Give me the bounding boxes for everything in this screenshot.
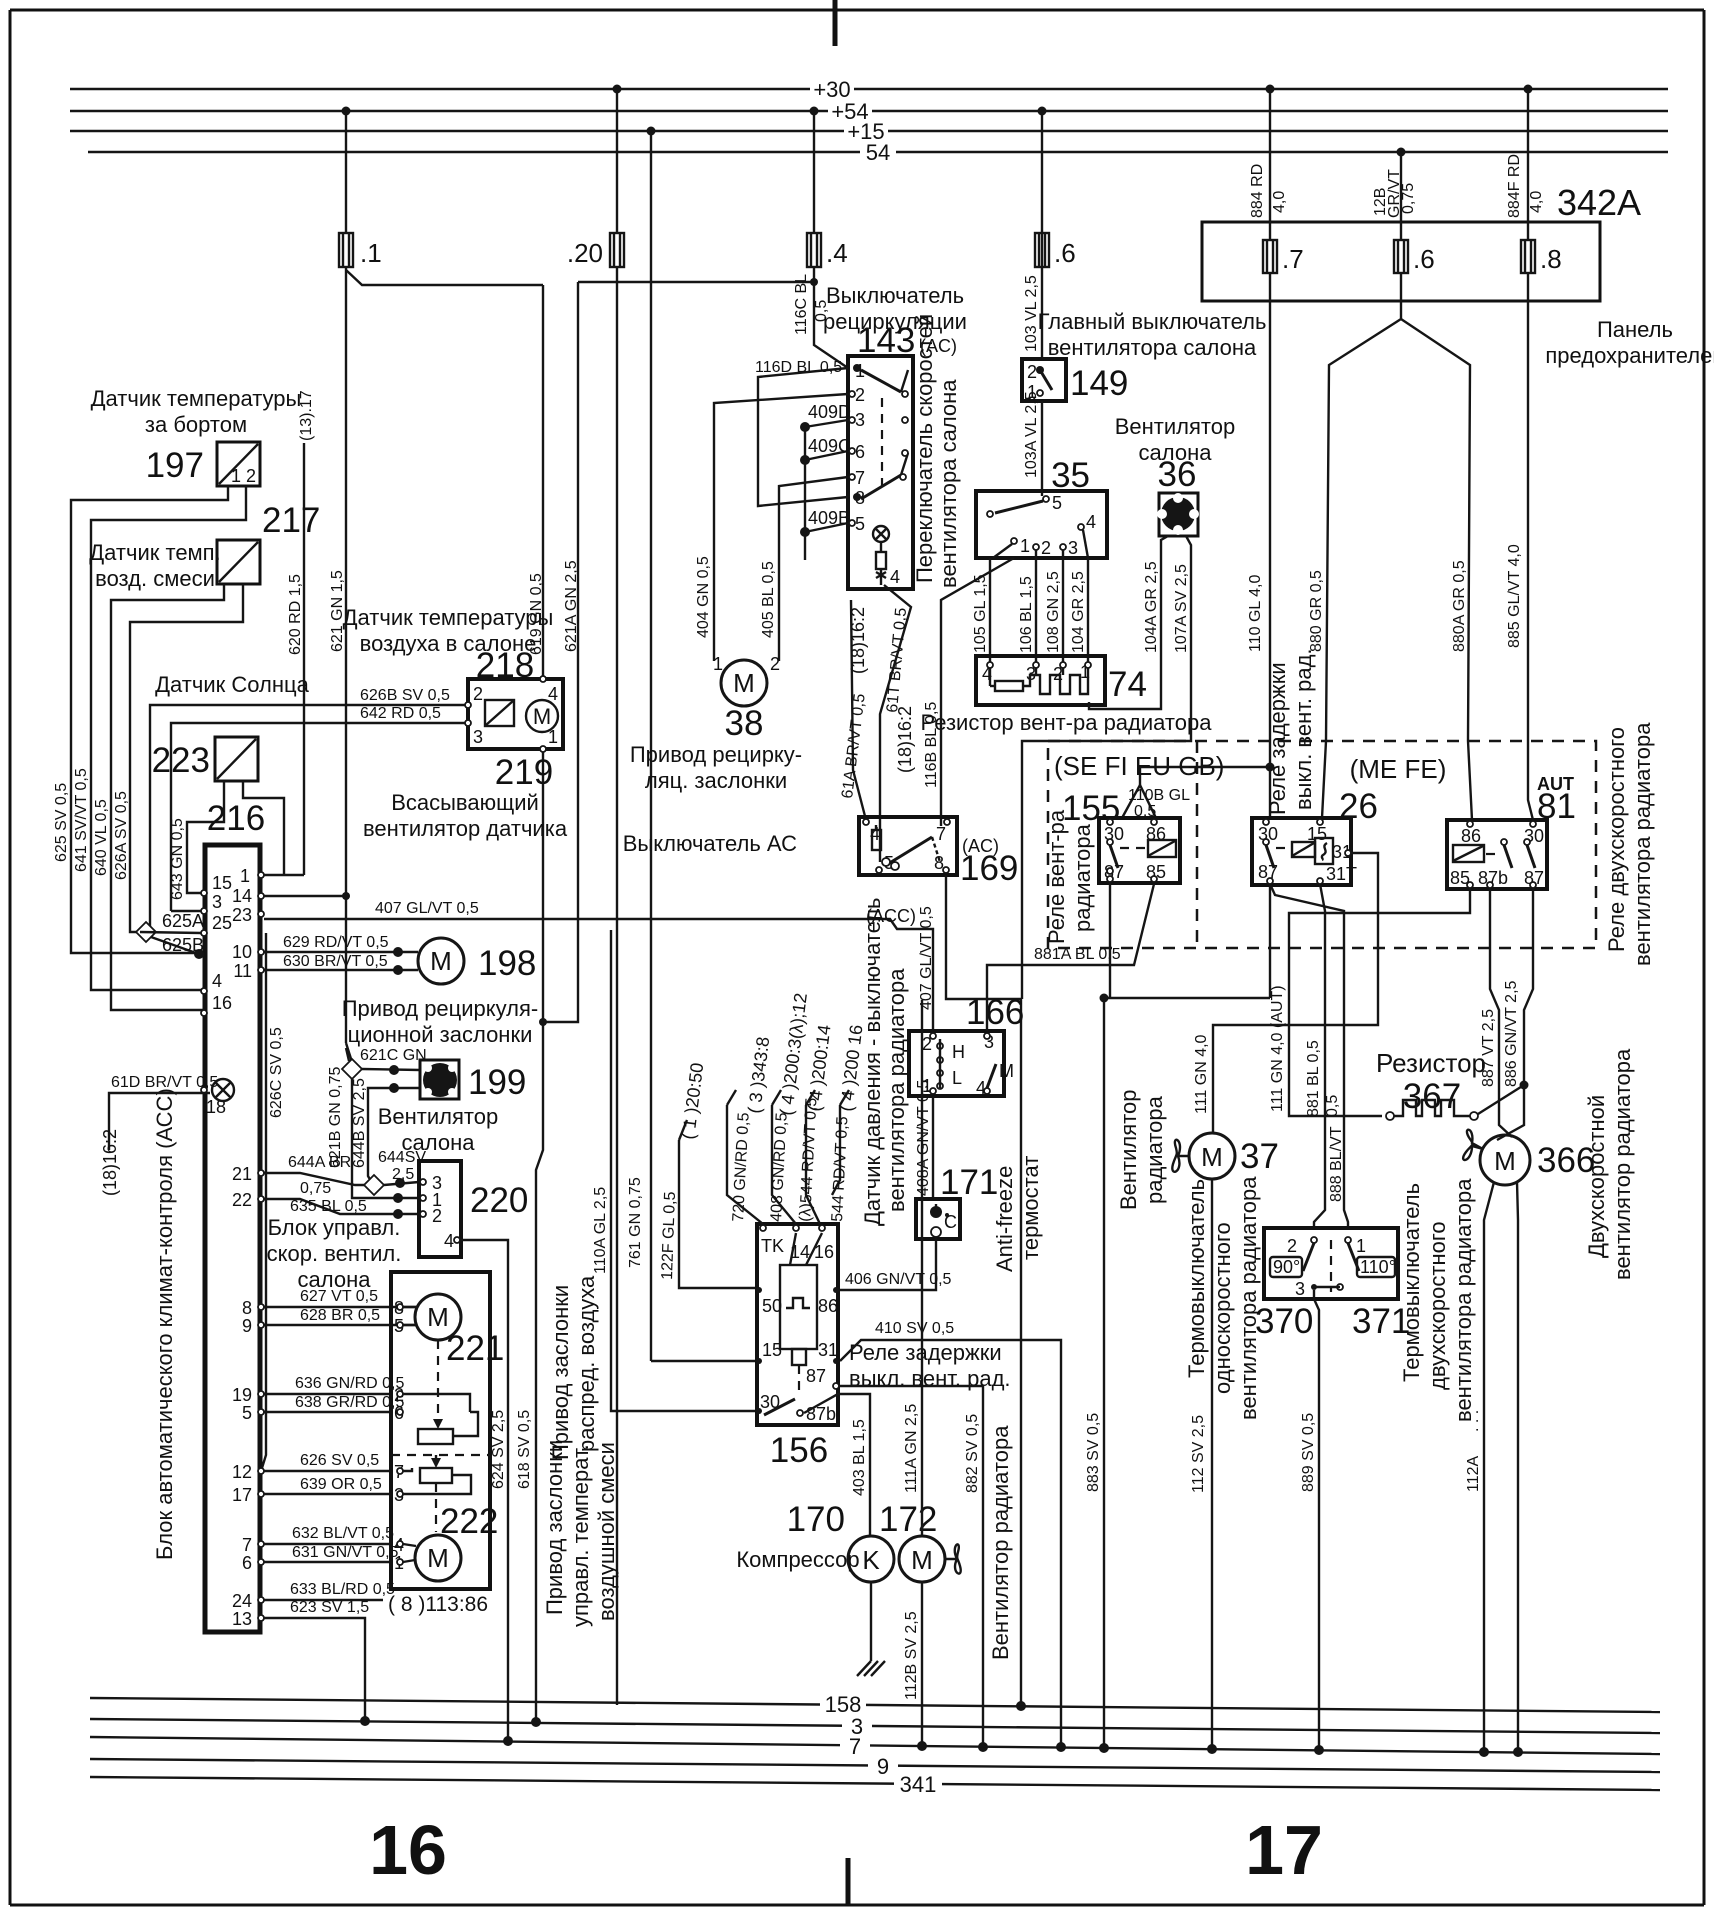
sensor 197 ambient temp xyxy=(91,386,302,486)
svg-text:170: 170 xyxy=(787,1500,845,1539)
dashed option box xyxy=(1048,741,1596,948)
ECU 216 block xyxy=(152,799,265,1632)
resistor 367 xyxy=(1376,1048,1529,1120)
label Panel predohraniteley xyxy=(1545,317,1714,368)
wire 403 BL from 156.87b xyxy=(804,1394,870,1537)
svg-text:111A GN 2,5: 111A GN 2,5 xyxy=(903,1404,920,1493)
svg-text:626A SV 0,5: 626A SV 0,5 xyxy=(113,791,130,880)
svg-text:(18)16:2: (18)16:2 xyxy=(895,706,915,773)
svg-text:выкл. вент. рад.: выкл. вент. рад. xyxy=(849,1366,1011,1391)
wire 641 SV/VT from 197.2 xyxy=(73,486,246,990)
svg-text:M: M xyxy=(533,704,551,729)
svg-text:644B SV 2,5: 644B SV 2,5 xyxy=(351,1078,368,1168)
sensor 218/219 cabin temp + fan xyxy=(343,605,568,841)
svg-text:110B GL: 110B GL xyxy=(1128,787,1190,804)
wire 626 SV pin12 xyxy=(264,1452,391,1471)
svg-text:4: 4 xyxy=(212,971,222,991)
compressor 170 xyxy=(736,1500,894,1582)
svg-text:627 VT 0,5: 627 VT 0,5 xyxy=(300,1288,378,1305)
label privod zaslonki upravl xyxy=(542,1440,619,1627)
svg-text:54: 54 xyxy=(866,140,890,165)
svg-text:термостат: термостат xyxy=(1018,1156,1043,1260)
wire 619 GN xyxy=(346,270,545,1727)
svg-text:вентилятора салона: вентилятора салона xyxy=(1048,335,1257,360)
svg-text:620 RD 1,5: 620 RD 1,5 xyxy=(287,574,304,655)
wire pin14 to 621 xyxy=(264,895,346,897)
wire 116B BL 35.1 to 169.7 xyxy=(923,558,1014,826)
svg-text:633 BL/RD 0,5: 633 BL/RD 0,5 xyxy=(290,1581,395,1598)
delay relay 156 xyxy=(756,1224,1011,1470)
label privod zaslonki raspred xyxy=(548,1275,599,1460)
wire 169.8 down xyxy=(946,875,1026,1711)
svg-text:21: 21 xyxy=(232,1164,252,1184)
svg-text:11: 11 xyxy=(233,961,252,981)
svg-text:409C: 409C xyxy=(808,436,851,456)
wire 632 BL/VT pin7 xyxy=(264,1525,394,1544)
svg-text:M: M xyxy=(733,668,755,698)
label thermal switch two speed xyxy=(1399,1178,1476,1422)
motor 38 recirc flap xyxy=(630,654,802,793)
svg-text:74: 74 xyxy=(1108,665,1147,704)
wire 880 GR from fuse .6b xyxy=(1308,273,1401,818)
svg-text:радиатора: радиатора xyxy=(1070,823,1095,932)
wire 408A GN/VT xyxy=(915,1080,933,1199)
svg-text:Термовыключатель: Термовыключатель xyxy=(1184,1179,1209,1378)
svg-text:625A: 625A xyxy=(162,911,204,931)
wire 630 BR/VT xyxy=(264,953,418,975)
svg-text:86: 86 xyxy=(818,1296,838,1316)
wire 636 GN/RD pin19 xyxy=(264,1375,404,1394)
svg-text:Вентилятор: Вентилятор xyxy=(1115,414,1235,439)
svg-text:2: 2 xyxy=(770,654,780,674)
wires below 366 xyxy=(1465,1182,1523,1757)
wire 408 GN/RD ref stub xyxy=(768,992,811,1224)
wire 633 BL/RD pin24 ref (8)113:86 xyxy=(264,1581,488,1616)
wire 110 GL from fuse .7 xyxy=(1122,273,1275,820)
svg-text:Реле задержки: Реле задержки xyxy=(849,1340,1002,1365)
svg-text:884F RD: 884F RD xyxy=(1506,154,1523,218)
svg-text:116C BL: 116C BL xyxy=(793,274,810,335)
wire 627 VT pin8 xyxy=(264,1288,417,1307)
svg-text:Вентилятор: Вентилятор xyxy=(1116,1090,1141,1210)
wire 110A GL xyxy=(592,930,755,1411)
svg-text:639 OR 0,5: 639 OR 0,5 xyxy=(300,1476,382,1493)
svg-text:409D: 409D xyxy=(808,402,851,422)
svg-text:626B SV 0,5: 626B SV 0,5 xyxy=(360,687,450,704)
svg-text:1: 1 xyxy=(1356,1236,1366,1256)
wire 626C SV xyxy=(262,933,285,1468)
svg-text:M: M xyxy=(911,1545,933,1575)
svg-text:197: 197 xyxy=(146,446,204,485)
svg-text:TK: TK xyxy=(761,1236,784,1256)
svg-text:Выключатель: Выключатель xyxy=(826,283,964,308)
svg-text:342A: 342A xyxy=(1557,182,1641,223)
svg-text:31: 31 xyxy=(818,1340,838,1360)
svg-text:Реле задержки: Реле задержки xyxy=(1265,662,1290,815)
wire 406 GN/VT xyxy=(840,1237,952,1290)
svg-text:17: 17 xyxy=(232,1485,252,1505)
svg-text:(18)16:2: (18)16:2 xyxy=(848,607,868,674)
svg-text:621A GN 2,5: 621A GN 2,5 xyxy=(563,560,580,652)
svg-text:7: 7 xyxy=(242,1535,252,1555)
wire 883 SV net below relays xyxy=(1099,882,1270,1753)
svg-text:ляц. заслонки: ляц. заслонки xyxy=(645,768,787,793)
fuse .4 xyxy=(807,233,848,268)
wire 628 BR pin9 xyxy=(264,1307,417,1325)
wire 410 SV from 156.31 xyxy=(840,1320,1066,1752)
ground below 170 xyxy=(857,1582,885,1676)
svg-text:Резистор: Резистор xyxy=(1376,1048,1486,1078)
svg-text:H: H xyxy=(952,1042,965,1062)
svg-text:22: 22 xyxy=(232,1190,252,1210)
svg-text:621B GN 0,75: 621B GN 0,75 xyxy=(327,1067,344,1169)
svg-text:15: 15 xyxy=(212,873,232,893)
wire 623 SV pin13 xyxy=(264,1599,370,1726)
wire 122F GL ref (1)20:50 xyxy=(659,1062,755,1288)
wire 106 BL xyxy=(1018,558,1036,665)
svg-text:.1: .1 xyxy=(360,238,382,268)
svg-text:888 BL/VT: 888 BL/VT xyxy=(1328,1126,1345,1202)
relay 26 delay relay xyxy=(1252,648,1378,885)
wire 639 OR pin17 xyxy=(264,1476,391,1494)
wire 621B GN xyxy=(327,1067,419,1204)
svg-text:скор. вентил.: скор. вентил. xyxy=(267,1241,402,1266)
svg-text:104 GR 2,5: 104 GR 2,5 xyxy=(1070,571,1087,653)
pressure switch 166 xyxy=(909,993,1024,1098)
ECU left pins xyxy=(201,873,232,1117)
svg-text:9: 9 xyxy=(242,1316,252,1336)
svg-text:13: 13 xyxy=(232,1609,252,1629)
svg-text:644A BR: 644A BR xyxy=(288,1154,351,1171)
wire pin1 to 620 xyxy=(264,874,304,876)
svg-text:3: 3 xyxy=(855,410,865,430)
main blower switch 149 xyxy=(1022,309,1266,403)
svg-text:Резистор вент-ра радиатора: Резистор вент-ра радиатора xyxy=(921,710,1213,735)
svg-text:2: 2 xyxy=(1041,538,1051,558)
svg-text:116B BL 0,5: 116B BL 0,5 xyxy=(923,702,940,788)
svg-text:L: L xyxy=(952,1068,962,1088)
svg-text:Привод заслонки: Привод заслонки xyxy=(542,1440,567,1615)
svg-text:ционной заслонки: ционной заслонки xyxy=(348,1022,533,1047)
wire 544 RD/VT ref stub b xyxy=(829,1024,867,1223)
wire 103 VL xyxy=(1023,107,1047,360)
wire 103A VL xyxy=(1023,391,1042,496)
svg-text:408A GN/VT 0,5: 408A GN/VT 0,5 xyxy=(915,1080,932,1196)
svg-text:635 BL 0,5: 635 BL 0,5 xyxy=(290,1198,367,1215)
svg-text:4,0: 4,0 xyxy=(1271,191,1288,213)
svg-text:370: 370 xyxy=(1255,1302,1313,1341)
svg-text:Термовыключатель: Термовыключатель xyxy=(1399,1183,1424,1382)
sun sensor label xyxy=(155,672,309,697)
svg-text:K: K xyxy=(862,1545,880,1575)
bus 3 xyxy=(90,1714,1660,1739)
wire 12B GR/VT xyxy=(1372,148,1417,241)
svg-text:вентилятора радиатора: вентилятора радиатора xyxy=(1630,722,1655,966)
svg-text:2: 2 xyxy=(432,1206,442,1226)
svg-text:2: 2 xyxy=(1027,362,1037,382)
svg-text:407 GL/VT 0,5: 407 GL/VT 0,5 xyxy=(375,900,479,917)
svg-text:171: 171 xyxy=(940,1163,998,1202)
svg-text:вентилятора радиатора: вентилятора радиатора xyxy=(884,968,909,1212)
svg-text:6: 6 xyxy=(242,1553,252,1573)
wire 882 SV from 156.87 xyxy=(840,1386,988,1752)
label ventilyator radiatora mid xyxy=(988,1425,1013,1660)
svg-text:341: 341 xyxy=(900,1772,937,1797)
svg-text:38: 38 xyxy=(725,704,764,743)
wire 631 GN/VT pin6 xyxy=(264,1544,399,1562)
svg-text:Привод рецирку-: Привод рецирку- xyxy=(630,742,802,767)
svg-text:( 8 )113:86: ( 8 )113:86 xyxy=(388,1593,488,1616)
label thermal switch single speed xyxy=(1184,1176,1261,1420)
svg-text:198: 198 xyxy=(478,944,536,983)
recirculation switch 143 xyxy=(823,283,967,589)
svg-text:1: 1 xyxy=(240,866,250,886)
wire 635 BL from pin22 xyxy=(264,1198,419,1219)
svg-text:221: 221 xyxy=(446,1329,504,1368)
fuse .6 xyxy=(1035,233,1076,268)
two-speed fan motor 366 xyxy=(1463,1048,1635,1280)
svg-text:4: 4 xyxy=(548,684,558,704)
svg-text:Датчик темп.: Датчик темп. xyxy=(89,540,220,565)
svg-text:105 GL 1,5: 105 GL 1,5 xyxy=(972,574,989,653)
svg-text:.7: .7 xyxy=(1282,244,1304,274)
wire 61D BR/VT with ref xyxy=(100,1074,234,1196)
svg-text:86: 86 xyxy=(1461,826,1481,846)
AC switch 169 xyxy=(623,817,1019,888)
svg-text:Компрессор: Компрессор xyxy=(736,1547,859,1572)
wire 405 BL 38.2 to 143.7 xyxy=(760,477,848,661)
svg-text:Датчик температуры: Датчик температуры xyxy=(343,605,554,630)
svg-text:3: 3 xyxy=(473,727,483,747)
svg-text:2: 2 xyxy=(473,684,483,704)
wire 112 SV from 37 xyxy=(1190,1179,1217,1754)
svg-text:405 BL 0,5: 405 BL 0,5 xyxy=(760,561,777,638)
wire 626B SV to 218 xyxy=(150,687,468,932)
wire 884 RD xyxy=(1249,85,1288,241)
motor 221 air distribution xyxy=(391,1294,504,1455)
svg-text:112A: 112A xyxy=(1465,1455,1482,1492)
wire 640 VL from 217 xyxy=(93,584,224,1010)
wire 720 GN/RD ref stub xyxy=(727,1036,773,1224)
svg-text:Привод рециркуля-: Привод рециркуля- xyxy=(342,996,539,1021)
svg-text:2,5: 2,5 xyxy=(392,1166,414,1183)
wire 116C BL xyxy=(793,107,848,369)
svg-text:M: M xyxy=(1494,1146,1516,1176)
wire +15 drop 761 GN xyxy=(627,127,757,1362)
wire 111A GN to 172 xyxy=(903,1000,922,1537)
wire 620 RD ref (13).17 xyxy=(287,390,315,875)
svg-text:625B: 625B xyxy=(162,935,204,955)
label pressure switch xyxy=(860,897,909,1226)
svg-text:7: 7 xyxy=(936,824,946,844)
svg-text:Панель: Панель xyxy=(1597,317,1673,342)
svg-text:.6: .6 xyxy=(1054,238,1076,268)
svg-text:90°: 90° xyxy=(1273,1257,1300,1277)
svg-text:двухскоростного: двухскоростного xyxy=(1425,1221,1450,1390)
svg-text:Вентилятор радиатора: Вентилятор радиатора xyxy=(988,1425,1013,1660)
svg-text:M: M xyxy=(427,1302,449,1332)
svg-text:881A BL 0,5: 881A BL 0,5 xyxy=(1034,946,1121,963)
svg-text:2: 2 xyxy=(1287,1236,1297,1256)
svg-text:4: 4 xyxy=(444,1231,454,1251)
wire 618 SV label xyxy=(516,1410,533,1489)
radiator fan motor 37 xyxy=(1116,1090,1279,1210)
actuator unit 221/222 xyxy=(391,1272,490,1589)
svg-text:Выключатель АС: Выключатель АС xyxy=(623,831,797,856)
svg-text:885 GL/VT 4,0: 885 GL/VT 4,0 xyxy=(1506,544,1523,648)
svg-text:3: 3 xyxy=(212,892,222,912)
svg-text:31T: 31T xyxy=(1326,864,1357,884)
svg-text:406 GN/VT 0,5: 406 GN/VT 0,5 xyxy=(845,1271,952,1288)
wire 104A GR xyxy=(1089,536,1168,709)
svg-text:111 GN 4,0: 111 GN 4,0 xyxy=(1193,1034,1210,1114)
svg-text:5: 5 xyxy=(242,1403,252,1423)
svg-text:199: 199 xyxy=(468,1063,526,1102)
svg-text:возд. смеси: возд. смеси xyxy=(95,566,215,591)
svg-text:217: 217 xyxy=(262,501,320,540)
svg-text:640 VL 0,5: 640 VL 0,5 xyxy=(93,799,110,876)
svg-text:621C GN: 621C GN xyxy=(360,1047,427,1064)
svg-text:1 2: 1 2 xyxy=(231,466,256,486)
svg-text:110 GL 4,0: 110 GL 4,0 xyxy=(1247,575,1264,652)
relay 81 two-speed fan relay xyxy=(1447,722,1655,966)
svg-text:7: 7 xyxy=(849,1734,861,1759)
svg-text:881 BL 0,5: 881 BL 0,5 xyxy=(1305,1040,1322,1117)
wire 880A GR xyxy=(1401,319,1472,820)
svg-text:219: 219 xyxy=(495,753,553,792)
svg-text:вентилятора салона: вентилятора салона xyxy=(936,379,961,588)
wire 61T ref stub xyxy=(880,585,915,862)
page number 16 xyxy=(369,1811,447,1889)
bus 341 xyxy=(90,1772,1660,1797)
wire 404 GN 143.2 to 38.1 xyxy=(695,394,848,661)
svg-text:.6: .6 xyxy=(1413,244,1435,274)
svg-text:24: 24 xyxy=(232,1591,252,1611)
blower speed switch 35 xyxy=(976,456,1107,558)
wire 887 VT 81.87b down xyxy=(1480,888,1512,1137)
svg-text:35: 35 xyxy=(1051,456,1090,495)
svg-text:4: 4 xyxy=(1086,512,1096,532)
svg-text:410 SV 0,5: 410 SV 0,5 xyxy=(875,1320,954,1337)
svg-text:25: 25 xyxy=(212,913,232,933)
svg-text:14: 14 xyxy=(232,886,252,906)
svg-text:624 SV 2,5: 624 SV 2,5 xyxy=(490,1410,507,1489)
svg-text:629 RD/VT 0,5: 629 RD/VT 0,5 xyxy=(283,934,389,951)
svg-text:Двухскоростной: Двухскоростной xyxy=(1584,1095,1609,1258)
svg-text:166: 166 xyxy=(966,993,1024,1032)
fuse .8 xyxy=(1521,240,1562,274)
svg-text:23: 23 xyxy=(232,905,252,925)
svg-text:26: 26 xyxy=(1339,787,1378,826)
page number 17 xyxy=(1245,1811,1323,1889)
svg-text:16: 16 xyxy=(212,993,232,1013)
relay 155 radiator fan relay xyxy=(1044,789,1180,944)
svg-text:107A SV 2,5: 107A SV 2,5 xyxy=(1173,564,1190,653)
svg-text:625 SV 0,5: 625 SV 0,5 xyxy=(53,783,70,862)
wire 889 SV from 370.3 xyxy=(1300,1290,1324,1755)
ECU right pins xyxy=(232,866,264,1629)
wire 107A SV xyxy=(1022,536,1191,999)
svg-text:9: 9 xyxy=(877,1754,889,1779)
svg-text:3: 3 xyxy=(1068,538,1078,558)
svg-text:641 SV/VT 0,5: 641 SV/VT 0,5 xyxy=(73,768,90,872)
svg-text:M: M xyxy=(1201,1142,1223,1172)
svg-text:5: 5 xyxy=(1052,493,1062,513)
svg-text:Переключатель скоростей: Переключатель скоростей xyxy=(912,314,937,583)
svg-text:Блок управл.: Блок управл. xyxy=(268,1215,401,1240)
svg-text:631 GN/VT 0,5: 631 GN/VT 0,5 xyxy=(292,1544,399,1561)
svg-text:вентилятора радиатора: вентилятора радиатора xyxy=(1451,1178,1476,1422)
wire 644A BR from pin21 xyxy=(264,1149,426,1197)
svg-text:623 SV 1,5: 623 SV 1,5 xyxy=(290,1599,369,1616)
svg-text:10: 10 xyxy=(232,942,252,962)
svg-text:1: 1 xyxy=(1020,536,1030,556)
wire 105 GL xyxy=(972,558,990,665)
svg-text:643 GN 0,5: 643 GN 0,5 xyxy=(169,818,186,900)
blower speed control unit 220 xyxy=(267,1161,529,1292)
svg-text:.20: .20 xyxy=(567,238,603,268)
svg-text:Anti-freeze: Anti-freeze xyxy=(992,1166,1017,1272)
wire 885 GL/VT from fuse .8 xyxy=(1506,273,1533,820)
wire 625 SV from 197.1 xyxy=(53,486,228,953)
svg-text:12: 12 xyxy=(232,1462,252,1482)
svg-text:103A VL 2,5: 103A VL 2,5 xyxy=(1023,391,1040,478)
bus +54 xyxy=(70,99,1668,124)
svg-text:87b: 87b xyxy=(806,1404,836,1424)
svg-text:149: 149 xyxy=(1070,364,1128,403)
svg-text:17: 17 xyxy=(1245,1811,1323,1889)
wire 888 BL/VT 26.87 to 371.1 xyxy=(1270,884,1348,1228)
svg-text:7: 7 xyxy=(855,468,865,488)
anti-freeze thermostat 171 xyxy=(916,1156,1043,1272)
svg-text:106 BL 1,5: 106 BL 1,5 xyxy=(1018,576,1035,653)
node 409B xyxy=(800,460,850,560)
wire 644B SV xyxy=(351,1078,420,1183)
node 409D xyxy=(800,402,851,432)
svg-text:108 GN 2,5: 108 GN 2,5 xyxy=(1045,571,1062,653)
node 625A diamond xyxy=(136,911,204,959)
svg-text:6: 6 xyxy=(855,442,865,462)
wire 643 GN from 223 xyxy=(169,781,224,900)
svg-text:M: M xyxy=(999,1061,1014,1081)
svg-text:0,75: 0,75 xyxy=(300,1180,331,1197)
svg-text:.4: .4 xyxy=(826,238,848,268)
fuse .1 xyxy=(339,233,382,268)
svg-text:883 SV 0,5: 883 SV 0,5 xyxy=(1085,1413,1102,1492)
svg-text:223: 223 xyxy=(152,741,210,780)
svg-text:886 GN/VT 2,5: 886 GN/VT 2,5 xyxy=(1503,980,1520,1087)
wire 621C to fan 199 xyxy=(362,1065,420,1075)
bus +15 xyxy=(70,119,1668,144)
svg-text:122F GL 0,5: 122F GL 0,5 xyxy=(659,1191,679,1280)
svg-text:61D BR/VT 0,5: 61D BR/VT 0,5 xyxy=(111,1074,218,1091)
wire 626A SV from 217 xyxy=(113,584,243,932)
bus 158 xyxy=(90,1692,1660,1717)
wire 884F RD xyxy=(1506,85,1545,241)
wire 112B SV from 172 xyxy=(903,1582,927,1751)
svg-text:367: 367 xyxy=(1403,1077,1461,1116)
svg-text:M: M xyxy=(427,1543,449,1573)
wire 886 GN/VT 81.87 down xyxy=(1497,888,1533,1140)
svg-text:110A GL 2,5: 110A GL 2,5 xyxy=(592,1187,609,1274)
fuse .7 xyxy=(1263,240,1304,274)
svg-text:880A GR 0,5: 880A GR 0,5 xyxy=(1451,560,1468,652)
svg-text:761 GN 0,75: 761 GN 0,75 xyxy=(627,1177,644,1268)
svg-text:111 GN 4,0 (AUT): 111 GN 4,0 (AUT) xyxy=(1269,985,1286,1112)
svg-text:889 SV 0,5: 889 SV 0,5 xyxy=(1300,1413,1317,1492)
wire 883 SV label xyxy=(1085,1413,1102,1492)
label 143 speed selector xyxy=(912,314,961,588)
